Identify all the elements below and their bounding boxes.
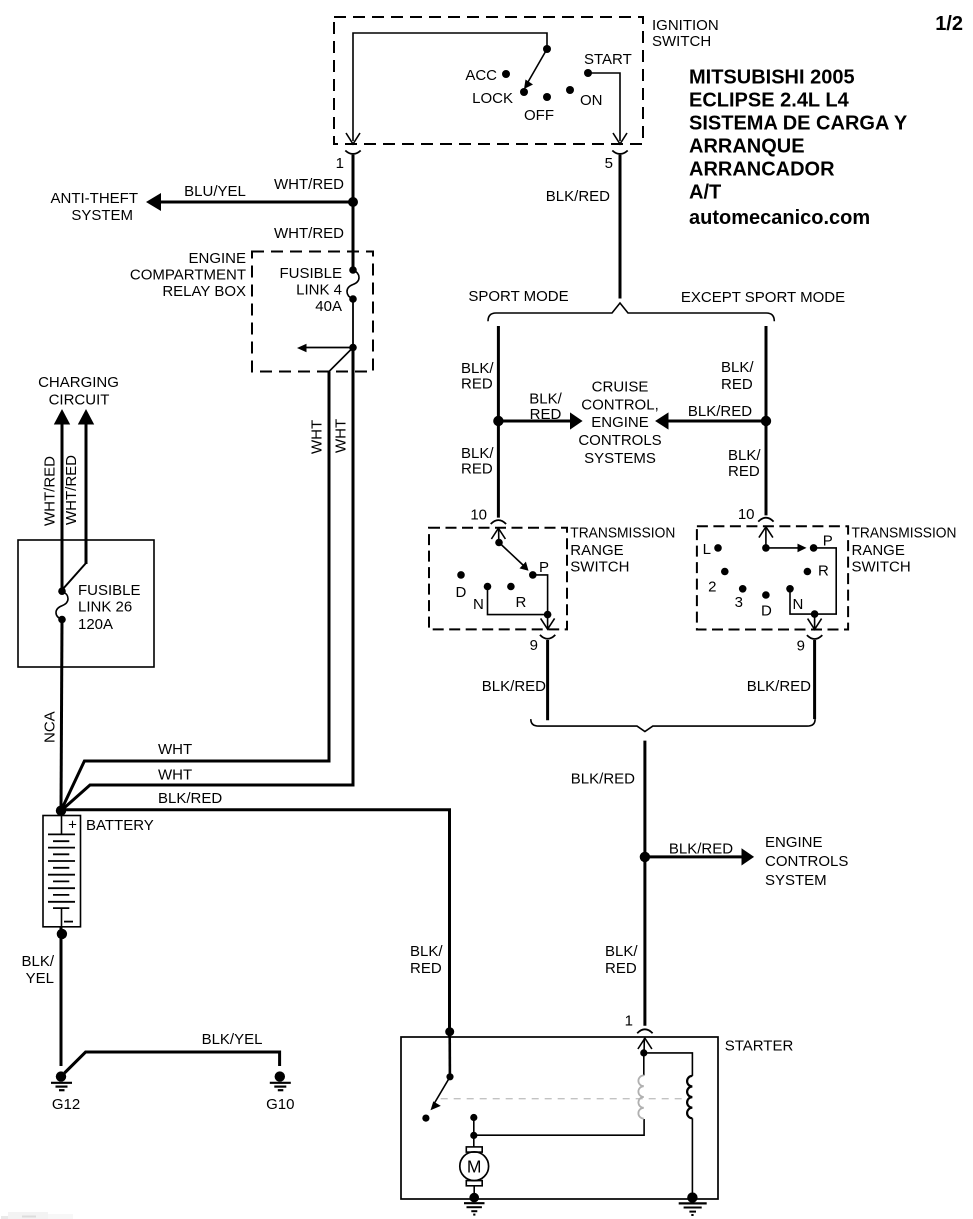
svg-text:ARRANQUE: ARRANQUE [689,136,805,158]
wire: battery to ground G12 [60,927,63,1066]
svg-text:BLU/YEL: BLU/YEL [184,183,246,200]
svg-text:WHT/RED: WHT/RED [274,225,344,242]
svg-text:ON: ON [580,92,603,109]
arrow to engine controls system [645,848,754,865]
svg-text:FUSIBLE: FUSIBLE [78,582,141,599]
contact ON [566,86,574,94]
starter switch contact (open) [422,1115,429,1122]
wire BLK/RED: battery to starter [61,810,450,1037]
starter switch lever [431,1077,451,1111]
svg-text:SWITCH: SWITCH [570,559,629,576]
svg-text:10: 10 [738,506,755,523]
svg-text:WHT/RED: WHT/RED [274,176,344,193]
svg-text:9: 9 [797,638,805,655]
svg-text:N: N [473,596,484,613]
transmission range switch label (right) [852,525,957,576]
svg-text:ACC: ACC [465,67,497,84]
engine controls system label [765,834,848,889]
contact P (right TRS) [810,544,818,552]
wire: diagonal to left WHT branch [329,348,353,372]
junction at starter box edge [445,1027,454,1036]
svg-text:BLK/: BLK/ [605,943,638,960]
wire NCA: link 26 to battery junction [61,620,62,811]
svg-text:SISTEMA DE CARGA Y: SISTEMA DE CARGA Y [689,113,908,135]
svg-text:CRUISE: CRUISE [592,379,649,396]
contact N (left TRS) [484,583,492,591]
cruise control systems label [578,379,661,467]
junction: engine controls tap [640,852,650,862]
contact P (left TRS) [529,571,537,579]
relay box label [130,250,246,300]
svg-text:COMPARTMENT: COMPARTMENT [130,267,246,284]
svg-text:BLK/RED: BLK/RED [158,790,222,807]
svg-text:D: D [456,584,467,601]
wire: solenoid contact to pull-in winding [474,1119,644,1135]
arrow to pin 9 (right TRS) [808,614,822,629]
wire: except sport to pin 10 (right) [758,518,773,522]
svg-text:9: 9 [530,637,538,654]
connector pin 1 (starter) [637,1029,652,1033]
svg-text:1/2: 1/2 [935,13,963,35]
contact 2 (right TRS) [721,568,729,576]
contact R (left TRS) [507,583,515,591]
svg-text:BLK/: BLK/ [410,943,443,960]
svg-text:EXCEPT SPORT MODE: EXCEPT SPORT MODE [681,289,845,306]
svg-text:SPORT MODE: SPORT MODE [468,288,568,305]
title block [689,67,908,230]
connector pin 1 [345,151,360,155]
wire: merged BLK/RED down to starter [643,741,646,1026]
wire: hold-in winding to ground [691,1118,693,1197]
svg-text:SYSTEMS: SYSTEMS [584,450,656,467]
svg-text:BLK/: BLK/ [728,447,761,464]
svg-text:RED: RED [530,406,562,423]
svg-text:NCA: NCA [42,711,59,743]
svg-text:SWITCH: SWITCH [852,559,911,576]
svg-text:YEL: YEL [26,970,54,987]
arrow to charging circuit (left) [54,409,70,591]
fusible link 26 [56,587,68,623]
contact OFF [543,93,551,101]
label BLK/RED (on arrow) [529,391,562,424]
svg-text:BLK/RED: BLK/RED [482,678,546,695]
wire WHT (left branch to battery) [61,372,329,811]
ignition rotor pivot [543,45,551,53]
label BLK/RED (to starter) [605,943,638,977]
contact D (left TRS) [457,571,465,579]
brace: merge to starter [531,719,815,731]
svg-text:2: 2 [708,579,716,596]
left TRS common contact [495,539,503,547]
wire: START contact to pin 5 [588,73,620,141]
svg-text:OFF: OFF [524,107,554,124]
label FUSIBLE LINK 4 40A [279,265,342,315]
wire: battery feed into starter switch [448,1032,451,1077]
svg-text:BLK/: BLK/ [721,359,754,376]
wire: junction down to fusible link 4 [352,202,355,270]
svg-text:IGNITION: IGNITION [652,17,719,34]
svg-text:SWITCH: SWITCH [652,33,711,50]
connector pin 9 (right) [807,635,822,639]
svg-text:120A: 120A [78,616,113,633]
svg-text:RED: RED [461,461,493,478]
svg-text:BLK/RED: BLK/RED [669,841,733,858]
junction: except sport branch [761,416,771,426]
arrow to cruise control (from except sport) [655,412,766,429]
svg-text:+: + [68,817,77,834]
contact ACC [502,70,510,78]
svg-text:CONTROL,: CONTROL, [581,396,659,413]
svg-text:BLK/RED: BLK/RED [747,678,811,695]
contact D (right TRS) [762,591,770,599]
svg-text:10: 10 [470,507,487,524]
contact 3 (right TRS) [739,585,747,593]
svg-text:RELAY BOX: RELAY BOX [162,283,246,300]
svg-text:BLK/YEL: BLK/YEL [202,1031,263,1048]
mechanical link (dashed) [441,1098,684,1100]
svg-text:WHT: WHT [309,420,326,454]
ground G10 [270,1071,291,1090]
svg-text:1: 1 [625,1013,633,1030]
svg-text:WHT: WHT [158,741,192,758]
svg-text:BLK/: BLK/ [461,445,494,462]
arrow from pin 10 (left TRS) [491,528,505,542]
arrow at pin 1 (inside box) [346,133,360,144]
wire to pull-in winding [643,1053,645,1076]
label FUSIBLE LINK 26 120A [78,582,141,633]
pull-in winding (grey coil) [638,1075,643,1118]
svg-text:RED: RED [728,463,760,480]
svg-text:BLK/RED: BLK/RED [688,403,752,420]
wire: sport mode branch [497,326,500,518]
svg-text:START: START [584,51,632,68]
svg-text:automecanico.com: automecanico.com [689,207,870,229]
transmission range switch box (left) [429,528,567,630]
arrow to cruise control (from sport) [498,412,582,429]
wire: pin 1 down to anti-theft junction [352,155,355,202]
wire: link 4 to relay junction [352,299,354,348]
arrow tap in relay box [297,344,353,352]
svg-text:L: L [703,541,711,558]
svg-text:BLK/: BLK/ [529,391,562,408]
right TRS common contact [762,544,770,552]
starter box [401,1037,718,1199]
svg-text:ENGINE: ENGINE [591,414,649,431]
svg-text:WHT/RED: WHT/RED [63,455,80,525]
ignition switch lever [524,49,547,89]
svg-text:M: M [467,1157,482,1177]
connector pin 10 (left) [491,520,506,524]
battery negative node [57,929,67,939]
svg-text:RED: RED [461,376,493,393]
wire: N to output (left TRS) [488,587,548,615]
wire: except sport branch [765,326,768,515]
svg-text:LOCK: LOCK [472,90,513,107]
svg-text:RANGE: RANGE [570,542,623,559]
arrow to charging circuit (right) [62,409,94,590]
wire: left pin 9 down [546,640,549,720]
svg-text:BLK/RED: BLK/RED [546,188,610,205]
junction: right TRS output [811,610,819,618]
svg-text:BLK/RED: BLK/RED [571,771,635,788]
arrow from pin 1 into starter [638,1038,652,1053]
engine compartment relay box [252,252,373,372]
wire: ignition internal feed to pin 1 [353,33,547,141]
junction: battery positive node [56,806,66,816]
wire: N to output (right TRS) [790,589,815,614]
ground G12 [51,1071,72,1090]
wire: P to output (right TRS) [814,548,837,614]
svg-text:WHT: WHT [158,767,192,784]
hold-in winding coil [687,1076,692,1118]
svg-text:P: P [539,559,549,576]
svg-text:3: 3 [735,594,743,611]
transmission range switch box (right) [697,526,848,629]
svg-text:D: D [761,603,772,620]
wire: right pin 9 down [813,640,816,719]
svg-text:ANTI-THEFT: ANTI-THEFT [51,190,139,207]
junction: solenoid feed [640,1049,647,1056]
svg-text:TRANSMISSION: TRANSMISSION [570,525,675,542]
junction in relay box [349,344,357,352]
svg-text:1: 1 [336,155,344,172]
svg-text:P: P [823,533,833,550]
wire WHT (right branch to battery) [61,348,353,811]
svg-text:R: R [818,563,829,580]
svg-text:40A: 40A [315,298,342,315]
wire: P to output (left TRS) [533,575,548,615]
label BLK/RED (lower right) [728,447,761,480]
svg-text:FUSIBLE: FUSIBLE [279,265,342,282]
svg-text:BATTERY: BATTERY [86,817,154,834]
label BLK/RED (battery feed) [410,943,443,977]
svg-text:CIRCUIT: CIRCUIT [49,392,110,409]
contact LOCK [520,88,528,96]
svg-text:G12: G12 [52,1096,80,1113]
arrow to pin 9 (left TRS) [541,615,555,630]
svg-text:LINK 26: LINK 26 [78,599,132,616]
contact L (right TRS) [714,544,722,552]
svg-text:BLK/: BLK/ [21,953,54,970]
contact R (right TRS) [804,568,812,576]
contact N (right TRS) [786,585,794,593]
label BLK/RED (lower left) [461,445,494,478]
starter motor M [460,1135,489,1194]
anti-theft system label [51,190,139,224]
fusible link 4 [347,266,359,303]
transmission range switch label (left) [570,525,675,576]
svg-text:5: 5 [605,155,613,172]
arrow at pin 5 (inside box) [613,133,627,144]
arrow from pin 10 (right TRS) [759,527,773,548]
svg-text:ARRANCADOR: ARRANCADOR [689,159,835,181]
svg-text:BLK/: BLK/ [461,360,494,377]
svg-text:G10: G10 [266,1096,294,1113]
charging circuit label [38,374,119,409]
svg-text:WHT: WHT [333,419,350,453]
svg-text:R: R [516,594,527,611]
right TRS lever (arrow to P) [766,544,807,553]
arrow to anti-theft system [146,193,353,211]
svg-text:LINK 4: LINK 4 [296,282,342,299]
svg-text:WHT/RED: WHT/RED [42,456,59,526]
fusible link 26 box [18,540,154,667]
ground (starter motor) [464,1193,485,1215]
junction: sport branch [493,416,503,426]
svg-text:A/T: A/T [689,182,721,204]
wire BLK/YEL: G12 to G10 [65,1052,280,1073]
starter switch battery contact [446,1073,453,1080]
wire: pin 5 down to mode split [619,155,622,299]
connector pin 9 (left) [540,635,555,639]
svg-text:ENGINE: ENGINE [765,834,823,851]
ground (solenoid) [679,1192,707,1215]
label BLK/RED (upper right) [721,359,754,393]
svg-text:RED: RED [721,376,753,393]
svg-text:N: N [793,596,804,613]
connector pin 5 [612,151,627,155]
svg-text:ECLIPSE 2.4L L4: ECLIPSE 2.4L L4 [689,90,850,112]
svg-text:RED: RED [410,960,442,977]
junction: left TRS output [544,611,552,619]
brace: sport mode split [488,303,774,321]
junction: anti-theft tap [348,197,358,207]
svg-text:SYSTEM: SYSTEM [765,872,827,889]
wire to hold-in winding [644,1053,693,1076]
svg-text:MITSUBISHI 2005: MITSUBISHI 2005 [689,67,855,89]
starter switch solenoid contacts [470,1114,477,1139]
svg-text:CONTROLS: CONTROLS [765,853,848,870]
svg-text:ENGINE: ENGINE [188,250,246,267]
svg-text:TRANSMISSION: TRANSMISSION [852,525,957,542]
left TRS lever [499,543,529,571]
svg-text:RED: RED [605,960,637,977]
svg-text:RANGE: RANGE [852,542,905,559]
svg-text:STARTER: STARTER [725,1038,794,1055]
svg-text:SYSTEM: SYSTEM [71,207,133,224]
label BLK/YEL (battery ground wire) [21,953,54,987]
label BLK/RED (upper left) [461,360,494,393]
ignition switch box [334,17,643,144]
svg-text:CONTROLS: CONTROLS [578,432,661,449]
faint watermark remnant (bottom-left) [1,1212,73,1219]
contact START [584,69,592,77]
svg-text:CHARGING: CHARGING [38,374,119,391]
battery [43,816,81,927]
